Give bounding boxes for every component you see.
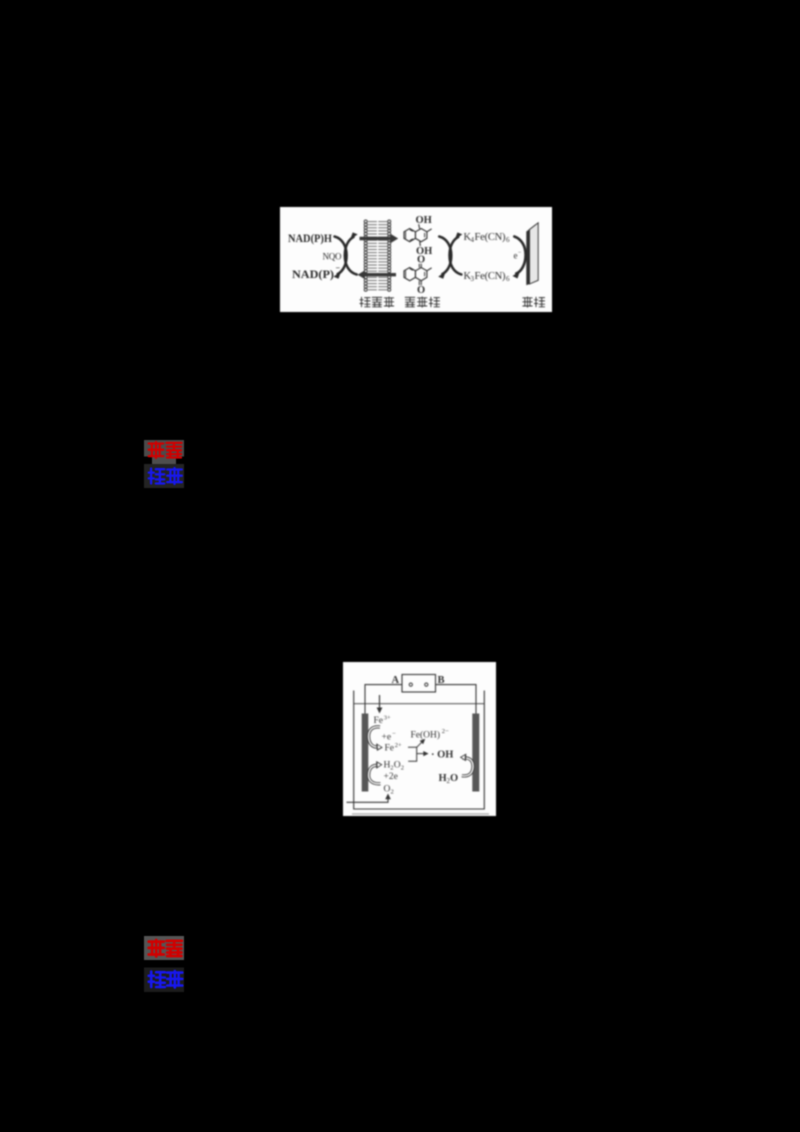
diagonal arrow to Fe(OH)2+ xyxy=(417,739,426,748)
cell membrane (lipid bilayer ladder) xyxy=(364,220,391,291)
svg-text:−: − xyxy=(392,731,396,738)
bottom shadow line of figure xyxy=(352,813,489,815)
svg-text:Fe(OH): Fe(OH) xyxy=(411,730,441,741)
air inlet line with arrow xyxy=(347,794,391,803)
hollow curved arrow O2 -> H2O2 at left electrode xyxy=(369,761,383,784)
svg-text:NQO: NQO xyxy=(323,252,343,262)
svg-text:Fe(CN): Fe(CN) xyxy=(475,232,507,243)
svg-text:2: 2 xyxy=(401,765,404,772)
wire from B to right electrode xyxy=(436,685,477,714)
horizontal arrow to .OH xyxy=(417,751,429,756)
svg-text:2−: 2− xyxy=(442,728,449,735)
figure 2: electro-Fenton electrolysis cell xyxy=(343,662,496,816)
liquid surface line xyxy=(354,703,485,705)
analysis tag 1 (blue 解析) xyxy=(144,464,184,488)
device box with terminals xyxy=(402,675,436,693)
svg-text:NAD(P): NAD(P) xyxy=(292,267,334,281)
svg-text:OH: OH xyxy=(416,215,432,226)
svg-text:O: O xyxy=(384,785,391,795)
svg-text:· OH: · OH xyxy=(431,750,453,761)
downward arrow from wire xyxy=(377,695,383,714)
thick arrow through membrane (rightward, top) xyxy=(360,234,399,243)
reaction fork bracket xyxy=(408,747,417,761)
thick arrow through membrane (leftward, bottom) xyxy=(358,270,396,279)
svg-text:O: O xyxy=(394,761,401,771)
menadione structure (bottom, =O groups) xyxy=(404,255,432,297)
left electrode xyxy=(362,714,369,792)
svg-text:Fe: Fe xyxy=(374,716,384,726)
svg-text:O: O xyxy=(450,773,458,784)
menadiol structure (top, OH groups) xyxy=(404,215,432,257)
answer tag 1 (red 答案) xyxy=(140,436,190,496)
label K3Fe(CN)6 xyxy=(464,271,511,283)
coupled-reaction arrows (left cycle) xyxy=(334,232,358,278)
svg-text:+e: +e xyxy=(382,733,392,743)
label 电极 (electrode) xyxy=(523,297,545,307)
svg-text:O: O xyxy=(417,285,425,296)
svg-text:3+: 3+ xyxy=(384,715,391,722)
svg-text:6: 6 xyxy=(506,236,510,244)
svg-text:Fe(CN): Fe(CN) xyxy=(475,271,507,282)
electrode slab (3D) xyxy=(526,223,538,285)
analysis tag 2 (blue 解析) xyxy=(144,968,184,993)
right electrode xyxy=(472,714,479,792)
wire from A to left electrode xyxy=(365,685,402,714)
svg-text:6: 6 xyxy=(506,275,510,283)
answer tag 2 (red 答案) xyxy=(140,932,190,996)
svg-text:NAD(P)H: NAD(P)H xyxy=(288,231,332,245)
hollow curved arrow Fe3+ -> Fe2+ at left electrode xyxy=(369,727,383,751)
electron-transfer curved arrow at electrode xyxy=(513,237,526,279)
svg-text:−: − xyxy=(336,264,341,273)
svg-text:H: H xyxy=(439,773,447,784)
coupled-reaction arrows (right cycle) xyxy=(438,232,462,278)
svg-text:2: 2 xyxy=(391,789,394,796)
label K4Fe(CN)6 xyxy=(464,232,511,244)
hollow curved arrow H2O -> .OH at right electrode xyxy=(460,754,473,776)
svg-text:2+: 2+ xyxy=(395,742,402,749)
figure 1: NAD(P)H / cell-membrane / menadione / ferricyanide electrode diagram xyxy=(280,207,552,312)
svg-text:+2e: +2e xyxy=(384,772,398,782)
label 甲萘醌 (menadione) xyxy=(405,297,439,307)
beaker xyxy=(354,691,485,810)
label 细胞膜 (cell membrane) xyxy=(360,297,394,307)
svg-text:Fe: Fe xyxy=(385,744,395,754)
svg-text:e: e xyxy=(514,251,518,261)
